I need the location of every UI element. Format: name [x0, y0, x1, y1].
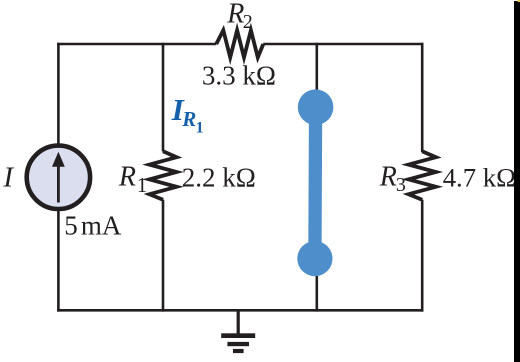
svg-text:3: 3	[396, 174, 406, 196]
svg-text:mA: mA	[81, 210, 122, 240]
svg-text:I: I	[2, 161, 14, 193]
svg-text:5: 5	[64, 210, 78, 240]
wire left branch (current source branch)	[57, 43, 60, 312]
value 2.2 kOhm	[182, 162, 256, 192]
svg-text:4.7 kΩ: 4.7 kΩ	[443, 163, 516, 193]
resistor R1 (vertical zigzag)	[149, 151, 176, 200]
short-circuit jumper bar (blue)	[308, 107, 322, 258]
jumper terminal dot bottom	[297, 241, 332, 276]
svg-text:1: 1	[137, 173, 148, 197]
svg-text:3.3 kΩ: 3.3 kΩ	[202, 61, 276, 91]
resistor R2 (horizontal zigzag)	[216, 30, 263, 57]
svg-text:R: R	[226, 0, 244, 29]
wire bottom (ground node)	[57, 309, 423, 312]
value 4.7 kOhm	[443, 163, 516, 193]
svg-text:1: 1	[196, 119, 204, 136]
label current I_R1 (blue)	[171, 92, 204, 137]
ground	[221, 309, 255, 353]
value 3.3 kOhm	[202, 61, 276, 91]
svg-text:R: R	[118, 162, 136, 193]
resistor R3 (vertical zigzag)	[409, 151, 436, 200]
page border bar right	[514, 1, 520, 362]
yellow corner fragment	[518, 0, 520, 2]
label R2	[226, 0, 253, 33]
wire right branch (R3 branch)	[421, 43, 424, 312]
label I (source name)	[2, 161, 14, 193]
jumper terminal dot top	[298, 89, 334, 125]
wire R1 branch vertical	[162, 43, 165, 312]
current source I (circle)	[27, 146, 90, 209]
svg-text:2.2 kΩ: 2.2 kΩ	[182, 162, 256, 192]
wire middle branch (short-circuit branch)	[315, 43, 318, 312]
svg-text:R: R	[181, 107, 196, 131]
svg-text:2: 2	[243, 11, 253, 33]
label R1	[118, 162, 147, 197]
wire top (node a: source to R2 left, R1 top, to R2)	[57, 43, 423, 46]
value 5 mA	[64, 210, 122, 240]
label R3	[379, 162, 406, 196]
svg-text:R: R	[379, 162, 397, 193]
current source arrow (pointing up)	[52, 152, 65, 203]
